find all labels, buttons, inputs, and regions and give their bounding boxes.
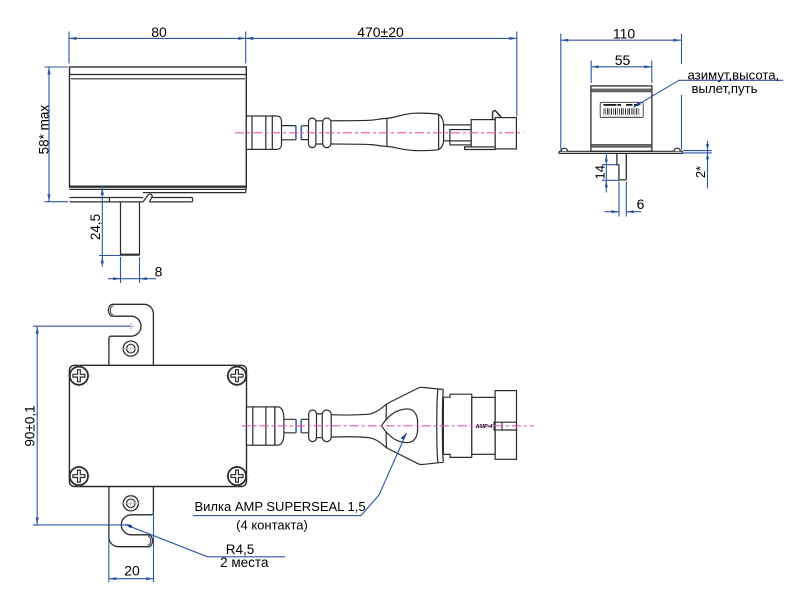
overmold barrel — [331, 118, 387, 146]
gland stub — [282, 126, 296, 140]
dim 90±0,1 : arrows — [36, 326, 39, 525]
bracket bottom hook — [109, 513, 153, 547]
gland dome — [272, 116, 281, 149]
svg-text:вылет,путь: вылет,путь — [692, 81, 758, 96]
connector neck rect 2 — [450, 130, 471, 145]
dim 55 : arrows — [591, 65, 652, 68]
svg-text:90±0,1: 90±0,1 — [22, 405, 37, 446]
bracket strap upper — [109, 314, 153, 366]
bracket bent tab (side view) — [143, 194, 152, 202]
dim 110 : arrows — [561, 39, 681, 42]
svg-text:8: 8 — [155, 264, 163, 280]
box top cap line 1 — [70, 74, 247, 76]
cylinder body — [591, 86, 652, 151]
dim 80 : extension lines — [69, 32, 246, 64]
svg-text:2 места: 2 места — [220, 555, 269, 570]
bracket hole bottom — [123, 496, 138, 511]
dim 2* : arrows — [706, 144, 709, 159]
cable ring2 (view C) — [322, 410, 331, 442]
cable boot taper (view C) — [331, 404, 386, 448]
label bottom dotted row — [604, 115, 641, 117]
cylinder top cap band — [591, 89, 652, 92]
cable between rings — [316, 121, 323, 144]
svg-text:58* max: 58* max — [37, 105, 52, 155]
overmold swell — [387, 113, 439, 151]
cable stub2 (view C) — [301, 419, 309, 433]
bracket hole top — [123, 341, 138, 356]
pin bottom thick line — [121, 254, 140, 256]
dim 20 : arrows — [109, 577, 154, 580]
connector end cap (view A) — [495, 118, 516, 149]
dim 8 : arrows — [113, 277, 147, 280]
barcode label — [600, 102, 643, 117]
bracket strap lower — [109, 487, 153, 538]
dim 6 : dimension line — [605, 211, 642, 213]
svg-text:110: 110 — [613, 26, 636, 42]
swell seam — [438, 114, 440, 150]
teardrop cutout — [382, 409, 418, 443]
leader Вилка AMP — [193, 433, 407, 516]
dim 20 : extension lines — [109, 511, 154, 582]
box top cap line 2 — [71, 78, 245, 80]
dim 110 : extension lines — [561, 34, 682, 150]
flange left bump — [561, 148, 567, 151]
box bottom cap lower line — [143, 189, 246, 192]
swell neck taper — [439, 114, 444, 150]
dim 80 : arrows — [69, 37, 246, 40]
dim 24,5 : bottom tick — [99, 255, 122, 257]
dim 8 : dimension line — [108, 278, 156, 280]
svg-text:AMP-4: AMP-4 — [475, 424, 493, 430]
centerline (view A) — [235, 132, 524, 134]
dim 58*max : extension lines — [45, 67, 69, 202]
svg-text:(4 контакта): (4 контакта) — [236, 518, 308, 533]
connector bottom skirt — [465, 147, 496, 150]
svg-text:55: 55 — [615, 52, 631, 68]
gland dome (view C) — [275, 407, 284, 445]
dim 6 : extension lines — [619, 182, 626, 217]
dim 2* : extension lines — [683, 151, 712, 153]
connector section 1 (view C) — [443, 394, 471, 457]
box bottom line thin — [70, 187, 247, 189]
leader азимут — [634, 80, 784, 107]
cable gland (view A) — [246, 116, 273, 149]
screw top-left — [67, 364, 91, 388]
bottom hook tip inner arc — [148, 536, 151, 545]
dim 24,5 : arrows — [101, 187, 104, 263]
overmold seam — [386, 118, 388, 146]
strain relief end band — [437, 389, 444, 463]
svg-text:Вилка AMP SUPERSEAL 1,5: Вилка AMP SUPERSEAL 1,5 — [195, 499, 366, 514]
label barcode — [604, 108, 640, 114]
dim 90±0,1 : extension lines — [33, 326, 130, 525]
boot end face — [385, 404, 388, 448]
cable stub 2 — [301, 126, 308, 140]
dim 6 : arrows — [612, 210, 634, 213]
device box (plan) — [69, 365, 246, 486]
svg-text:14: 14 — [592, 165, 607, 179]
dim 24,5 : dimension line — [101, 186, 103, 267]
svg-text:470±20: 470±20 — [357, 24, 404, 40]
dim 58*max : arrows — [47, 67, 50, 202]
latch window — [494, 422, 502, 430]
cable break line right — [300, 126, 302, 140]
flange plate — [559, 151, 683, 153]
cylinder bottom band — [591, 145, 652, 147]
mounting pin (view B) — [617, 153, 626, 180]
cable break lines (view C) — [295, 419, 297, 433]
dim 8 : extension lines — [121, 257, 140, 283]
svg-text:80: 80 — [151, 24, 167, 40]
leader R4,5 — [125, 524, 285, 556]
dim 80 : dimension line — [69, 37, 246, 39]
screw bottom-right — [225, 464, 249, 488]
centerline (view C) — [242, 425, 534, 427]
dim 55 : extension lines — [591, 61, 652, 84]
svg-text:20: 20 — [124, 562, 140, 578]
connector neck rect 1 — [444, 125, 472, 141]
dim 58*max : dimension line — [48, 67, 50, 202]
cable break line left — [295, 126, 297, 140]
dim 470±20 : arrows — [246, 37, 517, 40]
cable ring 2 (view A) — [323, 118, 331, 148]
dim 20 : dimension line — [109, 578, 154, 580]
dim 90±0,1 : dimension line — [36, 326, 38, 525]
flange right bump — [674, 148, 680, 151]
strain relief trapezoid — [387, 387, 439, 464]
bracket plate under box — [70, 198, 193, 202]
svg-text:6: 6 — [637, 196, 645, 212]
connector latch — [493, 111, 502, 120]
cable gland (view C) — [247, 407, 275, 445]
bracket top hook — [108, 304, 153, 338]
cable ring1 (view C) — [309, 410, 317, 442]
dim 14 : ticks — [602, 165, 620, 181]
cable ring 1 (view A) — [309, 118, 316, 148]
dim 55 : dimension line — [591, 66, 652, 68]
connector end cap (view C) — [495, 391, 516, 460]
svg-text:2*: 2* — [693, 166, 708, 178]
dim 14 : arrows — [605, 155, 608, 187]
screw top-right — [225, 364, 249, 388]
dim 2* : dimension line — [707, 141, 709, 189]
sensor box body — [70, 67, 247, 187]
top hook tip inner arc — [110, 306, 113, 315]
box bottom line thick — [70, 185, 247, 187]
label top text row — [604, 104, 640, 106]
dim 14 : dimension line — [605, 153, 607, 193]
hook slot center mark — [128, 323, 135, 330]
gland stub (view C) — [284, 419, 296, 433]
connector body (view A) — [471, 120, 495, 147]
svg-text:24,5: 24,5 — [88, 214, 103, 240]
dim 470±20 : right extension — [516, 32, 518, 117]
dim 470±20 : dimension line — [246, 37, 517, 39]
screw bottom-left — [67, 464, 91, 488]
end cap slot lines — [502, 422, 517, 430]
dim 110 : dimension line — [561, 39, 681, 41]
cable between rings (view C) — [317, 414, 323, 438]
connector section 2 (view C) — [472, 397, 495, 454]
bracket pin (side view) — [121, 202, 140, 255]
